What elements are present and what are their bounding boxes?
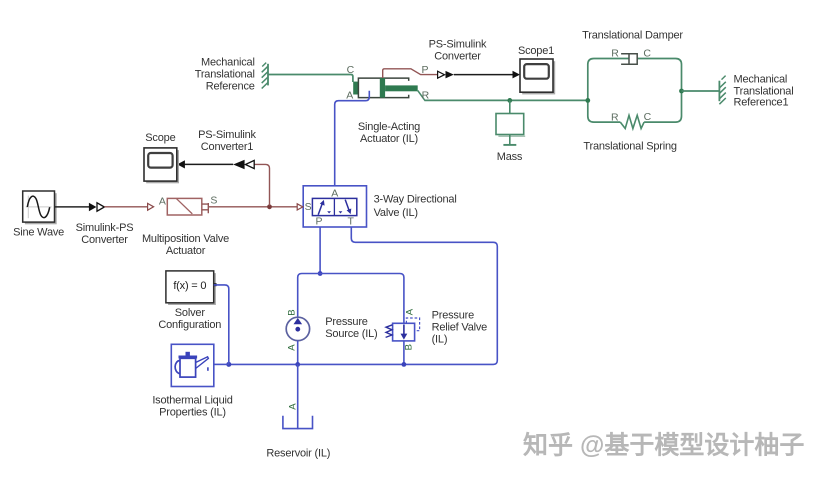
junction dot loop right bbox=[679, 89, 684, 94]
SECTION: damper loop bbox=[582, 30, 793, 153]
junction mass tap bbox=[507, 98, 512, 103]
junction dot S bbox=[267, 204, 272, 209]
wire P (PS signal) bbox=[383, 69, 437, 78]
wire to reference1 bbox=[682, 90, 720, 92]
wire manifold top bbox=[298, 274, 404, 324]
rod bbox=[385, 85, 418, 91]
wire loop right + top bbox=[637, 59, 681, 123]
svg-text:(IL): (IL) bbox=[432, 334, 448, 346]
svg-text:S: S bbox=[305, 201, 312, 213]
wire S to valve bbox=[208, 206, 297, 208]
svg-text:B: B bbox=[404, 344, 415, 350]
svg-text:Actuator: Actuator bbox=[166, 245, 206, 257]
svg-text:Source (IL): Source (IL) bbox=[325, 328, 377, 340]
svg-text:Converter: Converter bbox=[434, 51, 481, 63]
svg-text:Translational: Translational bbox=[195, 68, 255, 80]
wire source A to bus bbox=[297, 341, 299, 365]
svg-text:Pressure: Pressure bbox=[432, 310, 474, 322]
junction dots bus bbox=[402, 362, 407, 367]
svg-text:P: P bbox=[422, 64, 429, 76]
spring Translational Spring bbox=[620, 115, 644, 128]
svg-text:Mechanical: Mechanical bbox=[201, 56, 255, 68]
junction dot loop left bbox=[585, 98, 590, 103]
port A triangle bbox=[148, 203, 154, 210]
SECTION: hydraulics bbox=[152, 186, 497, 460]
valve Pressure Relief Valve (IL) bbox=[386, 318, 420, 341]
svg-text:PS-Simulink: PS-Simulink bbox=[429, 39, 487, 51]
wire PS to actuator A bbox=[104, 206, 147, 208]
svg-text:Reference1: Reference1 bbox=[734, 97, 789, 109]
rod link to R bbox=[418, 91, 425, 101]
svg-text:Single-Acting: Single-Acting bbox=[358, 121, 420, 133]
SECTION: actuator bbox=[195, 39, 588, 186]
converter PS-Simulink Converter1 bbox=[245, 160, 254, 168]
SECTION: source chain bbox=[13, 129, 297, 257]
wire solver to bus bbox=[214, 285, 229, 365]
config Solver Configuration bbox=[166, 271, 217, 305]
svg-text:f(x) = 0: f(x) = 0 bbox=[173, 280, 206, 292]
svg-text:Multiposition Valve: Multiposition Valve bbox=[142, 233, 229, 245]
svg-text:Actuator (IL): Actuator (IL) bbox=[360, 133, 418, 145]
svg-text:Mechanical: Mechanical bbox=[734, 74, 788, 86]
block Multiposition Valve Actuator bbox=[167, 198, 202, 215]
wire relief B to bus bbox=[403, 341, 405, 365]
block Mass bbox=[496, 114, 524, 135]
valve 3-Way Directional Valve (IL) bbox=[303, 186, 366, 227]
port S triangle bbox=[297, 204, 303, 210]
svg-text:Translational Damper: Translational Damper bbox=[582, 30, 683, 42]
svg-text:C: C bbox=[347, 64, 355, 76]
svg-text:Converter: Converter bbox=[81, 234, 128, 246]
svg-text:A: A bbox=[159, 195, 166, 207]
wire reservoir drop bbox=[297, 364, 299, 429]
piston bbox=[380, 78, 385, 98]
wire up to converter1 bbox=[254, 164, 269, 205]
svg-text:A: A bbox=[331, 188, 338, 200]
source Pressure Source (IL) bbox=[286, 317, 309, 340]
svg-text:Converter1: Converter1 bbox=[201, 141, 253, 153]
wire loop left + bottom to spring bbox=[588, 59, 629, 123]
block Isothermal Liquid Properties (IL) bbox=[171, 344, 214, 386]
wire T to bus bbox=[229, 227, 498, 364]
junction dot P bbox=[318, 271, 323, 276]
svg-text:T: T bbox=[347, 215, 354, 227]
single-acting actuator U: cylinder bbox=[353, 78, 409, 98]
wire A (hydraulic) bbox=[335, 91, 370, 186]
converter PS-Simulink bbox=[438, 71, 445, 78]
svg-text:Relief Valve: Relief Valve bbox=[432, 322, 488, 334]
sink block Scope bbox=[144, 148, 179, 183]
svg-text:C: C bbox=[644, 111, 652, 123]
svg-text:A: A bbox=[288, 403, 299, 410]
svg-text:Reference: Reference bbox=[206, 80, 255, 92]
svg-text:Translational Spring: Translational Spring bbox=[583, 140, 677, 152]
svg-text:P: P bbox=[315, 215, 322, 227]
port S ticks bbox=[202, 203, 209, 213]
svg-text:B: B bbox=[286, 309, 297, 315]
wire sine to converter bbox=[55, 206, 90, 208]
svg-text:3-Way Directional: 3-Way Directional bbox=[374, 193, 457, 205]
svg-text:R: R bbox=[422, 90, 430, 102]
svg-text:Pressure: Pressure bbox=[325, 316, 367, 328]
svg-text:Isothermal Liquid: Isothermal Liquid bbox=[152, 394, 232, 406]
wire R bbox=[424, 99, 587, 101]
damper Translational Damper glyph bbox=[621, 54, 637, 65]
svg-text:R: R bbox=[611, 111, 619, 123]
source block Sine Wave bbox=[23, 191, 57, 224]
SECTION: watermark bbox=[523, 431, 804, 460]
svg-text:A: A bbox=[404, 308, 415, 315]
wire to Scope1 bbox=[454, 74, 513, 76]
svg-text:PS-Simulink: PS-Simulink bbox=[198, 129, 256, 141]
svg-text:Mass: Mass bbox=[497, 151, 523, 163]
svg-text:Simulink-PS: Simulink-PS bbox=[76, 222, 134, 234]
sink block Scope1 bbox=[520, 59, 555, 94]
ground Mechanical Translational Reference1 bbox=[719, 76, 725, 105]
converter Simulink-PS bbox=[89, 203, 97, 211]
svg-text:Scope: Scope bbox=[145, 132, 175, 144]
tank Reservoir (IL) bbox=[283, 416, 313, 429]
svg-text:C: C bbox=[643, 48, 651, 60]
svg-text:A: A bbox=[286, 344, 297, 351]
svg-text:Properties (IL): Properties (IL) bbox=[159, 407, 226, 419]
svg-text:Valve (IL): Valve (IL) bbox=[374, 207, 418, 219]
wire converter1 to scope bbox=[185, 163, 234, 165]
svg-text:Scope1: Scope1 bbox=[518, 45, 554, 57]
svg-text:知乎 @基于模型设计柚子: 知乎 @基于模型设计柚子 bbox=[523, 431, 804, 460]
svg-text:R: R bbox=[611, 48, 619, 60]
svg-text:Configuration: Configuration bbox=[158, 319, 221, 331]
ground Mechanical Translational Reference bbox=[262, 63, 268, 89]
wire ILP to junction bbox=[214, 363, 229, 365]
svg-text:S: S bbox=[210, 194, 217, 206]
wire C bbox=[268, 75, 353, 83]
svg-text:Reservoir (IL): Reservoir (IL) bbox=[266, 448, 330, 460]
svg-text:Solver: Solver bbox=[175, 307, 206, 319]
svg-text:A: A bbox=[346, 90, 353, 102]
wire P down bbox=[319, 227, 321, 274]
svg-text:Sine Wave: Sine Wave bbox=[13, 226, 64, 238]
